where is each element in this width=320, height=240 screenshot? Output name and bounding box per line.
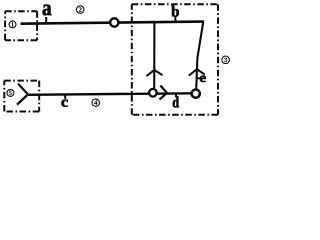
arrow on left branch (upward) [146,70,162,76]
node b terminal tick [174,17,176,23]
label circled 3 (outside right edge) [222,56,230,64]
branch symbol in box 5 (sideways Y) [17,84,28,105]
node e terminal tick [197,77,200,79]
node d label [173,97,179,108]
label circled 1 [9,21,16,28]
label circled 4 [92,99,99,106]
box 5 (dashed enclosure, bottom-left) [4,80,39,82]
wire (bottom horizontal, box5 to right circle) [28,93,192,95]
wire (left vertical branch in box 3) [153,22,155,88]
meter circle on top wire [110,18,118,26]
right circle component on bottom wire [192,90,200,98]
arrow on right branch (upward) [189,69,205,75]
current arrow d (chevron on bottom wire) [160,86,168,100]
node c label [61,100,67,107]
box 3 (large dashed enclosure, right) [132,3,218,5]
node a terminal tick [45,17,47,24]
wire (top horizontal, box1 to right branch) [21,22,205,24]
node e label [200,76,206,82]
label circled 2 [76,6,84,14]
left circle component on bottom wire [149,89,157,97]
node b label [171,6,178,17]
box 1 (dashed enclosure, top-left) [5,10,37,12]
wire (right slanted branch in box 3) [196,22,203,89]
label circled 5 [7,89,14,96]
node a label [43,5,52,16]
node d terminal tick [175,94,177,97]
node c terminal tick [64,95,66,99]
